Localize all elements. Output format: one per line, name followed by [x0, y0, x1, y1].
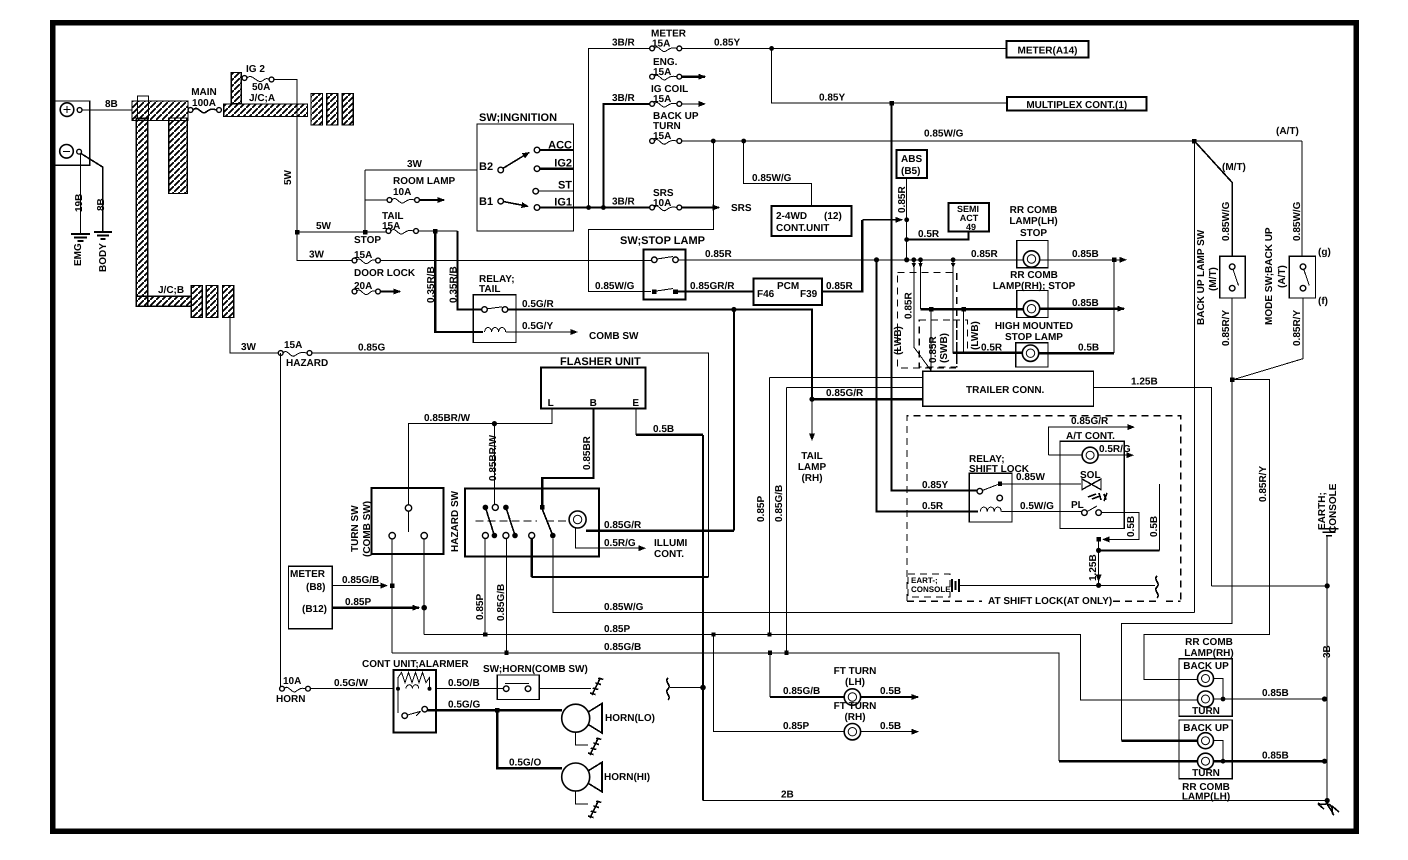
svg-text:0.85R/Y: 0.85R/Y: [1292, 310, 1303, 346]
svg-text:0.85P: 0.85P: [475, 594, 486, 620]
svg-text:HAZARD: HAZARD: [286, 358, 328, 369]
svg-text:0.5B: 0.5B: [1149, 516, 1160, 537]
svg-text:0.85R: 0.85R: [826, 281, 853, 292]
svg-text:MULTIPLEX CONT.(1): MULTIPLEX CONT.(1): [1026, 100, 1127, 111]
svg-text:10A: 10A: [393, 187, 411, 198]
svg-text:0.85W/G: 0.85W/G: [924, 129, 964, 140]
svg-text:0.5G/W: 0.5G/W: [334, 678, 368, 689]
svg-text:15A: 15A: [653, 67, 671, 78]
svg-text:J/C;A: J/C;A: [249, 93, 275, 104]
svg-text:0.5G/G: 0.5G/G: [448, 700, 480, 711]
svg-text:10A: 10A: [653, 198, 671, 209]
svg-text:(LWB): (LWB): [970, 321, 981, 350]
svg-text:19B: 19B: [74, 194, 85, 212]
svg-text:0.85W/G: 0.85W/G: [604, 602, 644, 613]
svg-text:0.85R/Y: 0.85R/Y: [1221, 310, 1232, 346]
svg-text:(A/T): (A/T): [1276, 126, 1299, 137]
svg-text:B: B: [590, 398, 597, 409]
svg-text:FLASHER UNIT: FLASHER UNIT: [560, 356, 641, 368]
svg-text:COMB SW: COMB SW: [589, 331, 639, 342]
svg-text:15A: 15A: [653, 94, 671, 105]
svg-text:0.85B: 0.85B: [1072, 249, 1099, 260]
svg-text:0.5R/G: 0.5R/G: [1099, 444, 1131, 455]
svg-text:0.85Y: 0.85Y: [922, 480, 948, 491]
svg-text:(COMB SW): (COMB SW): [362, 501, 373, 557]
svg-text:TURN: TURN: [1192, 706, 1220, 717]
svg-text:0.5R: 0.5R: [918, 229, 940, 240]
svg-text:LAMP(RH): LAMP(RH): [1184, 648, 1233, 659]
svg-text:SW;INGNITION: SW;INGNITION: [479, 112, 557, 124]
svg-text:(M/T): (M/T): [1208, 267, 1219, 291]
svg-text:HAZARD SW: HAZARD SW: [450, 490, 461, 552]
svg-text:PL: PL: [1071, 500, 1084, 511]
svg-text:SW;STOP LAMP: SW;STOP LAMP: [620, 235, 705, 247]
svg-text:2-4WD: 2-4WD: [776, 211, 807, 222]
svg-text:B2: B2: [479, 161, 493, 173]
svg-text:0.85G/R: 0.85G/R: [826, 388, 864, 399]
svg-text:E: E: [632, 398, 639, 409]
svg-text:PCM: PCM: [777, 281, 799, 292]
svg-text:TAIL: TAIL: [479, 284, 500, 295]
svg-text:0.85G: 0.85G: [358, 343, 385, 354]
svg-text:TURN: TURN: [1192, 768, 1220, 779]
svg-text:0.85B: 0.85B: [1072, 298, 1099, 309]
svg-text:(B12): (B12): [302, 604, 327, 615]
svg-text:STOP LAMP: STOP LAMP: [1005, 332, 1063, 343]
svg-text:0.5W/G: 0.5W/G: [1020, 501, 1054, 512]
svg-text:IG 2: IG 2: [246, 64, 265, 75]
svg-text:EARTH;: EARTH;: [1317, 492, 1328, 530]
svg-text:8B: 8B: [105, 99, 118, 110]
svg-text:BACK UP LAMP SW: BACK UP LAMP SW: [1196, 229, 1207, 325]
svg-text:ABS: ABS: [901, 154, 922, 165]
svg-text:0.85G/B: 0.85G/B: [783, 686, 820, 697]
svg-text:0.5R: 0.5R: [981, 343, 1003, 354]
svg-text:CONSOLE: CONSOLE: [1328, 483, 1339, 533]
svg-text:0.5B: 0.5B: [1126, 516, 1137, 537]
svg-text:MODE SW;BACK UP: MODE SW;BACK UP: [1264, 227, 1275, 325]
svg-text:3W: 3W: [309, 250, 325, 261]
svg-text:0.5R/G: 0.5R/G: [604, 538, 636, 549]
svg-text:15A: 15A: [284, 340, 302, 351]
svg-text:0.85R: 0.85R: [705, 249, 732, 260]
svg-text:0.85G/R: 0.85G/R: [1071, 416, 1109, 427]
svg-text:0.85R: 0.85R: [897, 186, 908, 213]
svg-text:CONSOLE: CONSOLE: [911, 585, 951, 594]
svg-text:0.85B: 0.85B: [1262, 688, 1289, 699]
svg-text:0.85W: 0.85W: [1016, 472, 1045, 483]
svg-text:0.85P: 0.85P: [345, 597, 371, 608]
svg-text:0.85G/B: 0.85G/B: [774, 485, 785, 522]
svg-text:METER(A14): METER(A14): [1017, 46, 1077, 57]
svg-text:0.85G/B: 0.85G/B: [342, 575, 379, 586]
svg-text:FT TURN: FT TURN: [834, 666, 877, 677]
svg-text:0.35R/B: 0.35R/B: [449, 266, 460, 303]
svg-text:0.85BR/W: 0.85BR/W: [424, 413, 471, 424]
svg-text:1.25B: 1.25B: [1088, 554, 1099, 581]
svg-text:(f): (f): [1318, 296, 1328, 307]
svg-text:J/C;B: J/C;B: [158, 285, 184, 296]
svg-text:EART-;: EART-;: [911, 576, 938, 585]
svg-text:50A: 50A: [252, 82, 270, 93]
svg-text:FT TURN: FT TURN: [834, 701, 877, 712]
svg-text:HIGH MOUNTED: HIGH MOUNTED: [995, 321, 1073, 332]
svg-text:3W: 3W: [241, 342, 257, 353]
svg-text:CONT.UNIT: CONT.UNIT: [776, 223, 829, 234]
svg-text:HORN(LO): HORN(LO): [605, 713, 655, 724]
svg-text:A/T CONT.: A/T CONT.: [1066, 431, 1115, 442]
svg-text:0.85G/R: 0.85G/R: [604, 520, 642, 531]
svg-text:0.5R: 0.5R: [922, 501, 944, 512]
svg-text:0.85W/G: 0.85W/G: [1292, 201, 1303, 241]
svg-text:ROOM LAMP: ROOM LAMP: [393, 176, 456, 187]
svg-text:1.25B: 1.25B: [1131, 377, 1158, 388]
svg-text:(LWB): (LWB): [893, 326, 904, 355]
svg-text:(M/T): (M/T): [1222, 162, 1246, 173]
svg-text:(LH): (LH): [845, 677, 865, 688]
svg-text:CONT UNIT;ALARMER: CONT UNIT;ALARMER: [362, 659, 469, 670]
svg-text:TURN SW: TURN SW: [350, 505, 361, 552]
svg-text:0.85W/G: 0.85W/G: [1221, 201, 1232, 241]
svg-text:5W: 5W: [283, 169, 294, 185]
svg-text:AT SHIFT LOCK(AT ONLY): AT SHIFT LOCK(AT ONLY): [988, 596, 1112, 607]
svg-text:SRS: SRS: [731, 203, 752, 214]
svg-text:0.85R: 0.85R: [928, 336, 939, 363]
svg-text:RR COMB: RR COMB: [1185, 637, 1233, 648]
svg-text:F46: F46: [757, 289, 775, 300]
svg-text:LAMP: LAMP: [798, 462, 827, 473]
svg-text:0.5O/B: 0.5O/B: [448, 678, 480, 689]
svg-text:L: L: [548, 398, 554, 409]
svg-text:B1: B1: [479, 196, 493, 208]
svg-text:DOOR LOCK: DOOR LOCK: [354, 268, 416, 279]
svg-text:3B/R: 3B/R: [612, 93, 636, 104]
svg-text:EMG: EMG: [73, 243, 84, 266]
svg-text:0.85P: 0.85P: [783, 721, 809, 732]
svg-text:0.5B: 0.5B: [1078, 343, 1099, 354]
svg-text:STOP: STOP: [1020, 228, 1047, 239]
svg-text:49: 49: [966, 222, 976, 232]
svg-text:TAIL: TAIL: [801, 451, 822, 462]
svg-text:0.85Y: 0.85Y: [714, 38, 740, 49]
svg-text:ST: ST: [558, 180, 572, 192]
svg-text:RR COMB: RR COMB: [1010, 205, 1058, 216]
svg-text:METER: METER: [290, 569, 326, 580]
svg-text:ILLUMI: ILLUMI: [654, 538, 688, 549]
svg-text:(A/T): (A/T): [1277, 265, 1288, 288]
svg-text:BODY: BODY: [98, 243, 109, 272]
svg-text:TRAILER CONN.: TRAILER CONN.: [966, 385, 1045, 396]
svg-text:0.85GR/R: 0.85GR/R: [690, 281, 735, 292]
svg-text:0.85BR: 0.85BR: [582, 435, 593, 470]
svg-text:(B8): (B8): [306, 582, 325, 593]
svg-text:8B: 8B: [96, 198, 107, 211]
svg-text:LAMP(LH): LAMP(LH): [1009, 216, 1057, 227]
svg-text:0.5G/O: 0.5G/O: [509, 758, 541, 769]
svg-text:0.85R/Y: 0.85R/Y: [1258, 466, 1269, 502]
svg-text:10A: 10A: [283, 676, 301, 687]
svg-text:IG2: IG2: [554, 158, 572, 170]
svg-text:3B/R: 3B/R: [612, 197, 636, 208]
svg-text:0.5G/R: 0.5G/R: [522, 299, 554, 310]
svg-text:3B/R: 3B/R: [612, 38, 636, 49]
svg-text:RR COMB: RR COMB: [1010, 270, 1058, 281]
svg-text:(g): (g): [1318, 247, 1331, 258]
svg-text:CONT.: CONT.: [654, 549, 684, 560]
svg-text:0.85G/B: 0.85G/B: [604, 642, 641, 653]
svg-text:0.5B: 0.5B: [653, 424, 674, 435]
svg-text:0.5G/Y: 0.5G/Y: [522, 321, 553, 332]
svg-text:5W: 5W: [316, 221, 332, 232]
svg-text:ACC: ACC: [548, 140, 572, 152]
svg-text:(B5): (B5): [901, 166, 920, 177]
svg-text:3W: 3W: [407, 159, 423, 170]
svg-text:MAIN: MAIN: [191, 87, 217, 98]
svg-text:3B: 3B: [1322, 645, 1333, 658]
svg-text:0.5B: 0.5B: [880, 721, 901, 732]
svg-text:STOP: STOP: [354, 235, 381, 246]
svg-text:0.85W/G: 0.85W/G: [595, 281, 635, 292]
svg-text:0.5B: 0.5B: [880, 686, 901, 697]
svg-text:2B: 2B: [781, 790, 794, 801]
svg-text:0.85R: 0.85R: [971, 249, 998, 260]
svg-text:F39: F39: [800, 289, 818, 300]
svg-text:0.85R: 0.85R: [904, 292, 915, 319]
svg-text:0.85BR/W: 0.85BR/W: [488, 434, 499, 481]
svg-text:(SWB): (SWB): [939, 333, 950, 363]
svg-text:0.85G/B: 0.85G/B: [496, 584, 507, 621]
svg-text:HORN: HORN: [276, 694, 305, 705]
svg-text:0.85P: 0.85P: [604, 624, 630, 635]
svg-text:SW;HORN(COMB SW): SW;HORN(COMB SW): [483, 664, 588, 675]
svg-text:0.85P: 0.85P: [756, 496, 767, 522]
svg-text:0.85W/G: 0.85W/G: [752, 173, 792, 184]
svg-text:0.85Y: 0.85Y: [819, 93, 845, 104]
svg-text:(RH): (RH): [844, 712, 865, 723]
svg-text:HORN(HI): HORN(HI): [604, 772, 650, 783]
svg-text:(RH): (RH): [801, 473, 822, 484]
svg-text:0.85B: 0.85B: [1262, 751, 1289, 762]
svg-text:100A: 100A: [192, 98, 216, 109]
svg-text:(12): (12): [824, 211, 842, 222]
svg-text:0.35R/B: 0.35R/B: [426, 266, 437, 303]
